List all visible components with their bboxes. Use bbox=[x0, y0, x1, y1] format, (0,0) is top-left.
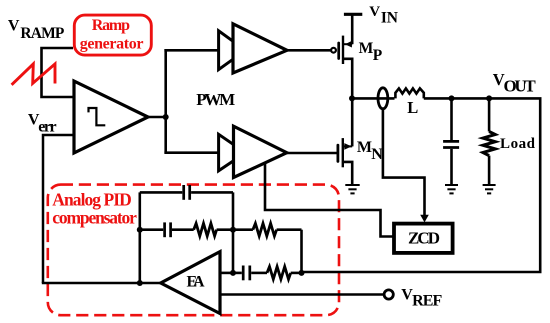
wire EA + input bbox=[220, 272, 233, 275]
channel bar MP bbox=[342, 36, 344, 64]
capacitor C1 (top feedback) bbox=[182, 185, 185, 200]
svg-text:EA: EA bbox=[187, 274, 206, 291]
svg-text:err: err bbox=[38, 119, 56, 136]
svg-text:Load: Load bbox=[500, 136, 536, 152]
wire switch node to MN drain bbox=[351, 98, 354, 146]
svg-text:OUT: OUT bbox=[504, 76, 537, 95]
wire output node vertical bbox=[164, 49, 167, 154]
node load junction bbox=[486, 95, 492, 101]
svg-text:M: M bbox=[359, 40, 374, 57]
resistor Load bbox=[483, 98, 495, 184]
wire inductor to VOUT corner bbox=[424, 97, 542, 100]
wire VIN to MP source bbox=[351, 14, 354, 44]
capacitor C3 (lower branch) bbox=[242, 266, 245, 281]
driver U3 small triangle (bottom) bbox=[219, 134, 246, 171]
source segment MN bbox=[343, 162, 352, 184]
ZCD box bbox=[394, 224, 453, 253]
drain segment MP bbox=[343, 59, 352, 99]
svg-text:Ramp: Ramp bbox=[92, 17, 130, 34]
wire EA output to Verr bbox=[42, 282, 161, 285]
drain segment MN with arrow bbox=[343, 145, 352, 147]
capacitor Cout bbox=[443, 98, 459, 184]
resistor R3 (lower branch) bbox=[267, 267, 291, 280]
svg-text:IN: IN bbox=[381, 10, 398, 27]
wire probe to ZCD with arrow bbox=[383, 109, 425, 216]
node switch junction bbox=[349, 95, 355, 101]
top feedback branch wire bbox=[140, 191, 183, 194]
svg-text:generator: generator bbox=[80, 35, 144, 52]
gate bar MP bbox=[337, 43, 340, 59]
node output cap junction bbox=[449, 95, 455, 101]
wire gate tap to ZCD bbox=[265, 162, 394, 237]
resistor R2 (input branch) bbox=[233, 228, 253, 231]
driver U3 big triangle (bottom) bbox=[234, 126, 287, 177]
capacitor C2 (second branch) bbox=[163, 222, 166, 237]
channel bar MN bbox=[342, 138, 344, 167]
transistor MN (NMOS) bbox=[338, 98, 352, 184]
wire input branch down bbox=[300, 230, 303, 272]
ground Load bbox=[483, 185, 496, 193]
red dashed box Analog PID compensator bbox=[48, 185, 339, 316]
ramp waveform (red sawtooth) bbox=[12, 64, 55, 85]
wire switch node to probe and inductor bbox=[353, 97, 395, 100]
gate bar MN bbox=[336, 145, 339, 161]
wire Verr to comparator - input bbox=[43, 135, 74, 283]
wire comparator output to node bbox=[148, 116, 166, 119]
transistor MP (PMOS) bbox=[331, 36, 352, 99]
supply VIN bar bbox=[344, 13, 362, 16]
driver U2 big triangle (top) bbox=[233, 24, 287, 73]
right vertical wire (EA input node) bbox=[232, 192, 235, 273]
ground Cout bbox=[445, 185, 458, 193]
node comparator output junction bbox=[163, 114, 169, 120]
wire EA ref input to VREF terminal bbox=[220, 293, 384, 296]
wire ramp generator to comparator + input bbox=[42, 48, 75, 97]
svg-text:V: V bbox=[369, 4, 380, 20]
svg-text:PWM: PWM bbox=[196, 90, 235, 109]
node EA input junction bbox=[230, 227, 236, 233]
terminal VREF bbox=[384, 290, 393, 299]
svg-text:ZCD: ZCD bbox=[408, 229, 440, 248]
current probe ellipse bbox=[378, 88, 388, 109]
svg-text:P: P bbox=[373, 47, 383, 64]
ground MN bbox=[345, 185, 359, 193]
wire top driver to MP gate bbox=[287, 49, 331, 52]
inductor L bbox=[395, 88, 423, 98]
node lower branch right junction bbox=[299, 270, 305, 276]
node left branch junction bbox=[137, 227, 143, 233]
node EA output junction bbox=[137, 280, 143, 286]
wire second branch bbox=[140, 228, 163, 231]
left vertical wire (EA output to feedback branches) bbox=[139, 192, 142, 283]
driver U2 small triangle (top) bbox=[219, 31, 246, 70]
svg-text:compensator: compensator bbox=[52, 208, 137, 228]
svg-text:Analog PID: Analog PID bbox=[52, 190, 132, 210]
svg-text:V: V bbox=[8, 18, 20, 35]
source segment MP with arrow bbox=[343, 43, 352, 45]
svg-text:N: N bbox=[371, 146, 383, 163]
resistor R1 (second branch) bbox=[194, 223, 217, 236]
node lower branch left junction bbox=[230, 270, 236, 276]
svg-text:M: M bbox=[357, 139, 372, 156]
op-amp EA bbox=[161, 252, 220, 314]
svg-text:REF: REF bbox=[412, 292, 442, 309]
wire VOUT feedback right edge bbox=[302, 98, 541, 272]
svg-text:RAMP: RAMP bbox=[20, 25, 64, 42]
gate bubble MP bbox=[331, 48, 336, 53]
comparator U1 (PWM comparator) bbox=[74, 81, 148, 153]
svg-text:L: L bbox=[407, 98, 418, 117]
wire lower branch bbox=[233, 272, 242, 275]
Ramp generator box bbox=[74, 15, 151, 55]
wire bottom driver to MN gate bbox=[287, 152, 337, 155]
wire to bottom driver bbox=[164, 151, 219, 154]
step symbol inside comparator bbox=[89, 108, 106, 125]
wire to top driver bbox=[164, 49, 219, 52]
